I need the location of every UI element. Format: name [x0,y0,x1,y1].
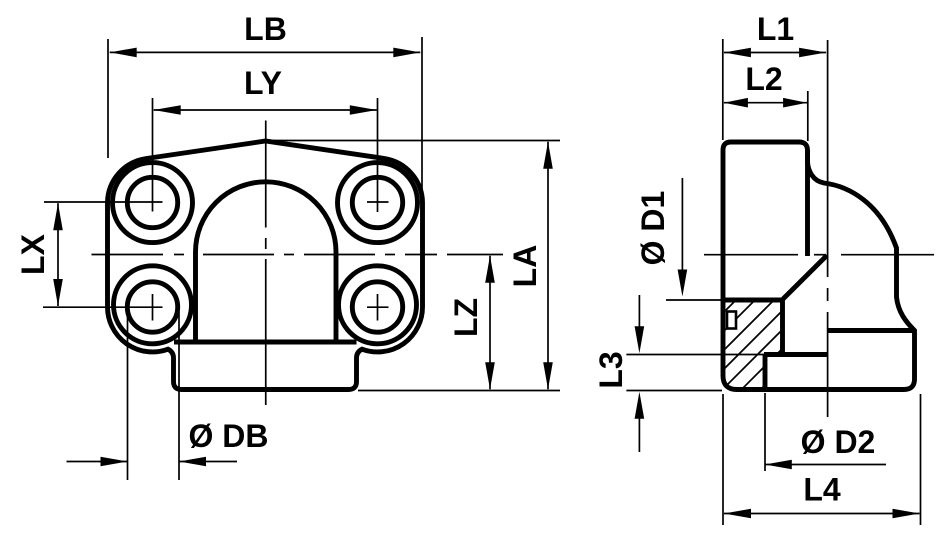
svg-text:L2: L2 [745,61,782,97]
svg-text:LA: LA [507,245,543,288]
svg-text:L3: L3 [593,351,629,388]
svg-text:LX: LX [15,233,51,275]
svg-text:L4: L4 [803,472,841,508]
svg-text:Ø D2: Ø D2 [801,424,876,460]
svg-text:Ø DB: Ø DB [189,418,269,454]
svg-text:LB: LB [244,11,287,47]
svg-text:Ø D1: Ø D1 [635,191,671,266]
svg-text:LZ: LZ [448,298,484,337]
svg-text:L1: L1 [757,11,794,47]
svg-text:LY: LY [244,65,282,101]
